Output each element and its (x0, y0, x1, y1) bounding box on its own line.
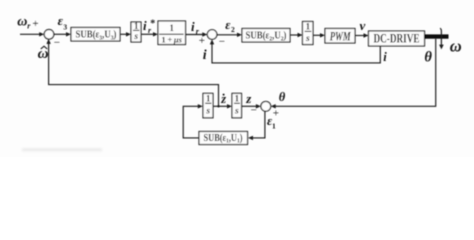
block PWM (325, 29, 355, 44)
svg-text:+: + (273, 108, 279, 120)
wire SUB2 to integrator2 (290, 34, 298, 36)
block SUB(e3,U3) (71, 28, 120, 42)
svg-text:s: s (234, 107, 239, 117)
svg-text:θ: θ (279, 90, 286, 104)
block integrator 1/s (observer 2) (232, 93, 242, 117)
svg-text:1: 1 (169, 23, 174, 33)
motor shaft bar (425, 34, 449, 38)
svg-text:s: s (205, 107, 210, 117)
svg-text:s: s (133, 32, 138, 42)
svg-text:PWM: PWM (330, 30, 352, 44)
svg-text:SUB(ε1,U1): SUB(ε1,U1) (204, 133, 243, 145)
wire S2 to SUB2 (217, 34, 238, 36)
svg-text:1: 1 (206, 94, 211, 104)
svg-text:−: − (251, 104, 257, 116)
block integrator 1/s (controller) (303, 22, 314, 45)
summing junction S1 (44, 30, 54, 40)
svg-text:i: i (191, 19, 195, 34)
wire omega_r input (20, 33, 40, 35)
svg-text:1: 1 (134, 21, 139, 31)
svg-text:ω: ω (17, 14, 27, 29)
svg-text:s: s (305, 34, 310, 44)
svg-text:*: * (150, 19, 155, 30)
wire integrator2 to PWM (313, 34, 321, 36)
omega output arrow (440, 28, 441, 45)
wire i feedback (212, 44, 380, 63)
svg-text:1: 1 (306, 22, 311, 32)
block integrator 1/s (speed ref) (131, 22, 141, 42)
block filter 1/(1+mu s) (158, 21, 186, 45)
wire integrator3 to integrator4 (213, 105, 228, 107)
wire integrator1 to filter (141, 33, 154, 35)
svg-text:1: 1 (272, 121, 276, 130)
block DC-DRIVE (369, 31, 425, 46)
svg-text:r: r (27, 21, 31, 30)
svg-text:2: 2 (231, 25, 235, 34)
wire observer loop (SUB1 out to integrator3) (183, 106, 199, 138)
block SUB(e1,U1) (199, 132, 248, 145)
svg-text:DC-DRIVE: DC-DRIVE (374, 31, 420, 46)
wire epsilon_1 (253, 111, 265, 138)
svg-text:−: − (219, 36, 225, 48)
wire filter to S2 (186, 34, 203, 36)
wire PWM to DC-DRIVE (355, 35, 364, 37)
block SUB(e2,U2) (242, 29, 290, 43)
svg-text:ω: ω (450, 37, 462, 56)
wire omega_hat feedback (49, 43, 219, 106)
svg-text:SUB(ε3,U3): SUB(ε3,U3) (76, 30, 117, 42)
wire theta feedback (275, 39, 435, 107)
wire SUB3 to integrator1 (120, 33, 127, 35)
block integrator 1/s (observer 1) (203, 93, 213, 117)
svg-text:i: i (203, 48, 207, 63)
svg-text:i: i (143, 18, 147, 33)
svg-text:+: + (32, 18, 38, 30)
svg-text:3: 3 (63, 22, 67, 31)
wire S1 to SUB3 (54, 33, 67, 35)
svg-text:−: − (54, 37, 60, 49)
svg-text:1 + μs: 1 + μs (161, 35, 182, 45)
svg-text:θ: θ (424, 49, 432, 65)
svg-text:SUB(ε2,U2): SUB(ε2,U2) (246, 31, 287, 43)
scan artifact streak (22, 149, 102, 152)
wire integrator4 to S3 (242, 105, 257, 107)
svg-text:i: i (383, 50, 387, 64)
svg-text:1: 1 (235, 94, 240, 104)
summing junction S2 (207, 30, 217, 40)
junction omega_hat tap (217, 105, 219, 107)
svg-text:v: v (360, 18, 366, 33)
svg-text:+: + (199, 35, 205, 47)
summing junction S3 (261, 101, 271, 111)
